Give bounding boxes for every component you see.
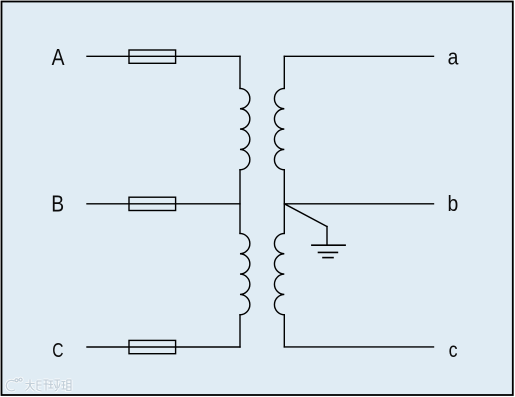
secondary winding L4 (lower, arcs bulge left): [274, 233, 284, 314]
wire A phase: label to fuse to primary top corner: [87, 55, 240, 57]
wire: secondary vertical between windings (b junction): [283, 170, 285, 234]
wire: primary vertical to C wire: [239, 315, 241, 347]
secondary winding L3 (upper, arcs bulge left): [274, 88, 284, 169]
wire: secondary vertical to c wire: [283, 315, 285, 347]
wire: ground lead diagonal from b junction: [284, 204, 327, 227]
watermark logo: [6, 378, 22, 391]
watermark characters: [26, 380, 72, 392]
wire: secondary vertical drop from a: [283, 56, 285, 88]
wire a phase out: [284, 55, 433, 57]
svg-text:a: a: [448, 45, 459, 69]
fuse F3 (phase C): [129, 340, 176, 353]
svg-text:A: A: [52, 46, 66, 71]
wire c phase out: [284, 346, 433, 348]
wire b phase out: [284, 203, 433, 205]
svg-text:B: B: [51, 192, 64, 217]
primary winding L2 (lower, arcs bulge right): [240, 233, 250, 314]
svg-text:C: C: [52, 339, 63, 362]
wire: primary vertical between windings (B junction): [239, 170, 241, 234]
fuse F1 (phase A): [129, 50, 176, 63]
wire: ground lead vertical: [326, 227, 328, 246]
wire B phase: label to primary mid junction: [87, 203, 240, 205]
wire C phase: label to primary bottom corner: [87, 346, 240, 348]
wire: primary vertical drop from A: [239, 56, 241, 88]
primary winding L1 (upper, arcs bulge right): [240, 88, 250, 169]
fuse F2 (phase B): [129, 197, 176, 210]
ground symbol: [311, 245, 346, 257]
svg-text:b: b: [448, 192, 459, 216]
svg-text:c: c: [449, 339, 458, 363]
